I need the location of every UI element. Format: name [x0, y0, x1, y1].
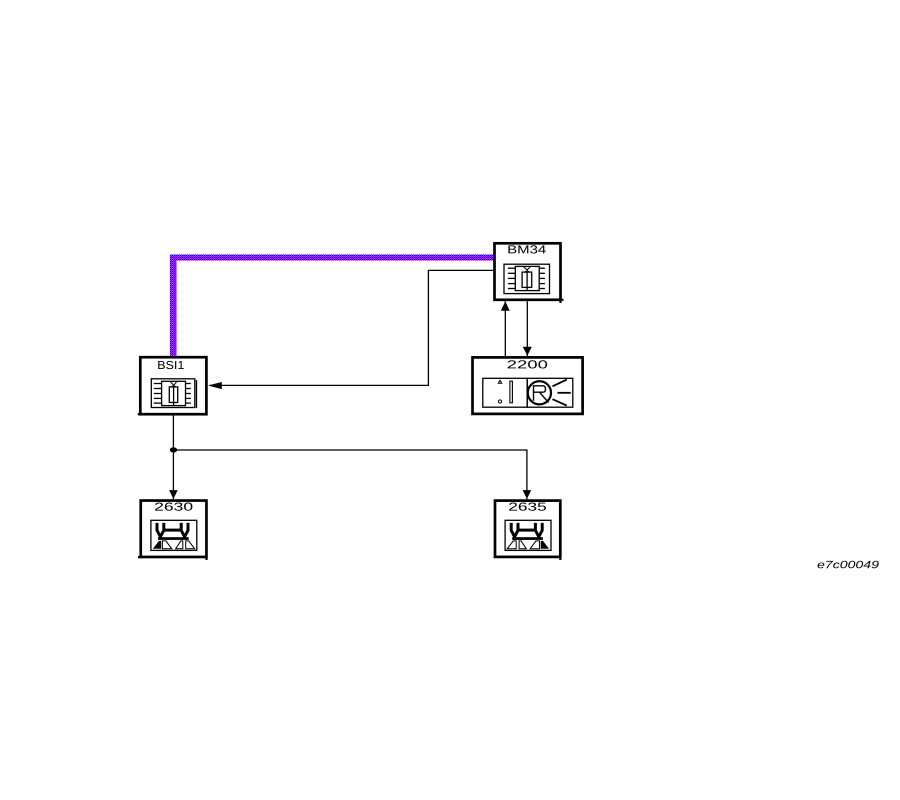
- label 2635: [509, 503, 546, 511]
- box BM34: [495, 243, 564, 303]
- label 2200: [508, 360, 548, 368]
- box 2635: [495, 501, 560, 560]
- arrowhead into 2630 top: [169, 490, 178, 499]
- arrowhead into 2635 top: [523, 490, 532, 499]
- junction dot: [170, 447, 177, 452]
- box BSI1: [138, 357, 207, 414]
- arrowhead into BSI1 right: [208, 382, 222, 389]
- wire: 2200 to BM34 (up): [504, 301, 506, 356]
- icon 2630 (lamp): [151, 520, 197, 550]
- wire: branch to 2635: [173, 450, 527, 499]
- wire: BM34 to 2200 (down): [526, 301, 528, 356]
- label 2630: [155, 503, 192, 511]
- box 2200: [473, 357, 583, 414]
- arrowhead into 2200 top: [523, 347, 532, 356]
- wire: BSI1 bottom down to 2630: [172, 416, 174, 500]
- label BM34: [508, 245, 545, 253]
- wire: thick purple CAN wire BSI1 top to BM34 left: [170, 255, 493, 356]
- wire: BM34 left to BSI1 right: [210, 270, 494, 385]
- label BSI1: [158, 361, 184, 369]
- icon 2200 (rheostat switch): [483, 378, 573, 407]
- icon BSI1 (fuse box): [151, 379, 196, 408]
- arrowhead into BM34 bottom: [501, 301, 510, 310]
- icon BM34 (fuse box): [504, 264, 550, 293]
- icon 2635 (lamp): [505, 520, 551, 550]
- box 2630: [138, 501, 207, 560]
- label e7c00049: [817, 561, 878, 569]
